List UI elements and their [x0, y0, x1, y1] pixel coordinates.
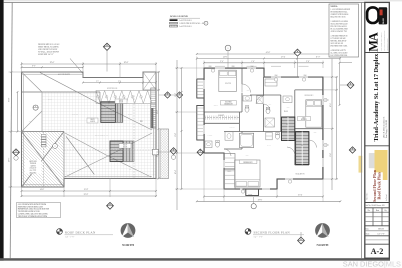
svg-text:AND CRICKET AT ROOF: AND CRICKET AT ROOF: [38, 48, 57, 51]
svg-text:NORTH: NORTH: [122, 243, 134, 247]
svg-text:2668: 2668: [287, 107, 290, 109]
svg-text:MAD: MAD: [382, 18, 385, 24]
bedroom 3 bed: [306, 100, 322, 127]
svg-text:THE PUBLIC STORM DRAIN SYSTEM: THE PUBLIC STORM DRAIN SYSTEM: [18, 215, 48, 218]
svg-text:4:12: 4:12: [96, 80, 99, 82]
svg-text:O.C. TYP: O.C. TYP: [30, 170, 37, 172]
svg-text:UP: UP: [286, 124, 288, 126]
svg-text:Date: Date: [376, 210, 379, 212]
svg-text:Sheet Title:: Sheet Title:: [366, 192, 368, 200]
svg-text:10"-6": 10"-6": [330, 103, 332, 108]
right planter strip: [160, 129, 169, 179]
ridge upper-left: [41, 92, 43, 132]
stair treads upper right: [115, 102, 122, 123]
svg-text:ROOF: ROOF: [123, 144, 127, 146]
trellis X diagonal 1: [22, 132, 65, 188]
title block outer box: [365, 2, 390, 258]
deck diagonal SE 3: [65, 156, 108, 177]
revision table: [372, 208, 374, 226]
section marker right: [170, 148, 177, 155]
deck right parapet: [153, 128, 155, 179]
below-sheet white strip: [0, 261, 402, 268]
svg-text:OPEN TRELLIS: OPEN TRELLIS: [107, 88, 117, 90]
truss zigzag band: [96, 90, 156, 92]
svg-text:Scale:: Scale:: [366, 233, 371, 235]
section marker left: [13, 149, 20, 156]
sheet bottom border (thick): [0, 258, 390, 261]
svg-text:SLOPE: SLOPE: [90, 121, 95, 123]
second floor dimension chains: [197, 58, 340, 60]
deck bottom parapet: [64, 175, 152, 177]
divider under logo: [365, 52, 390, 54]
north arrow right: [315, 223, 330, 238]
hip diagonal upper-left b: [22, 111, 43, 132]
roof deck title underline: [65, 234, 114, 236]
svg-text:W.I.C.: W.I.C.: [228, 171, 233, 173]
right outer dim: [339, 63, 341, 105]
divider under scale row: [365, 235, 390, 237]
svg-text:08/05/20: 08/05/20: [378, 228, 384, 230]
svg-text:1/4"=1"-0": 1/4"=1"-0": [377, 233, 385, 235]
bottom bump-out: [246, 189, 259, 196]
svg-text:2x6 @ 16": 2x6 @ 16": [30, 168, 37, 170]
svg-text:1: 1: [206, 23, 207, 25]
left bump-out upper (shelves): [197, 79, 204, 98]
deck diagonal SE 1: [65, 133, 108, 156]
dashed line vertical deck: [133, 96, 135, 179]
svg-text:OPEN WD: OPEN WD: [29, 161, 37, 163]
left scan black bar: [0, 0, 4, 261]
svg-text:9"-8": 9"-8": [306, 61, 310, 63]
ladder strip right edge: [151, 88, 156, 128]
svg-text:12"-4": 12"-4": [281, 57, 286, 59]
svg-text:5"-6": 5"-6": [251, 61, 255, 63]
window openings: [215, 67, 225, 69]
svg-text:2668: 2668: [246, 155, 249, 157]
door swings: [242, 84, 251, 93]
svg-text:BEDROOM: BEDROOM: [224, 103, 233, 105]
band dim line: [83, 82, 156, 84]
roof plan dimension chains: [22, 63, 157, 65]
sheet top border: [4, 1, 390, 3]
notes block: [329, 4, 359, 57]
stair center stringer: [287, 117, 289, 141]
roof access door box: [153, 149, 159, 155]
svg-text:4:12: 4:12: [129, 169, 132, 171]
svg-text:Triad-Academy St. Lot 17 Duple: Triad-Academy St. Lot 17 Duplex: [374, 53, 380, 142]
svg-text:5040 SL: 5040 SL: [214, 105, 219, 107]
svg-text:41"-0": 41"-0": [266, 52, 271, 54]
wall poché: [204, 68, 242, 69]
svg-text:3. WHERE WINDOW IS: 3. WHERE WINDOW IS: [331, 36, 348, 38]
roof deck plan title circle: [57, 229, 63, 235]
sheet right border: [388, 2, 390, 259]
bedroom 2 bed: [235, 160, 260, 187]
dark wall band right: [151, 108, 153, 128]
roof edge parapet double bottom: [24, 184, 64, 186]
trellis X diagonal 2: [22, 132, 65, 188]
svg-text:ROOF: ROOF: [119, 100, 123, 102]
stair shaft upper: [101, 102, 116, 123]
second floor title underline: [253, 234, 304, 236]
divider under project title: [365, 145, 390, 147]
marker circle top: [225, 45, 231, 51]
svg-text:REQ. PER CRC R310.: REQ. PER CRC R310.: [331, 16, 347, 18]
sheet title cell: [369, 153, 375, 168]
deck diagonal lower: [66, 136, 94, 174]
sheet left border: [10, 2, 12, 258]
tag circle roof: [33, 105, 38, 110]
svg-text:DECK 2%: DECK 2%: [72, 114, 79, 116]
north arrow left: [121, 223, 136, 238]
svg-text:COMPLY WITH EGRESS: COMPLY WITH EGRESS: [331, 14, 349, 16]
divider under revision table: [365, 225, 390, 227]
marker left wall: [197, 149, 203, 155]
section marker bottom: [107, 202, 114, 209]
svg-text:14"-0": 14"-0": [40, 189, 45, 191]
closets: [204, 117, 239, 119]
svg-text:WALL LEGEND: WALL LEGEND: [170, 15, 188, 18]
svg-text:SLOPE: SLOPE: [128, 114, 132, 116]
roof note leader: [70, 59, 83, 74]
svg-text:13"-0": 13"-0": [330, 153, 332, 158]
valley diagonal long 2: [100, 104, 152, 130]
divider under job row: [365, 207, 390, 209]
second floor outer wall: [204, 68, 323, 189]
marker right lower: [349, 147, 355, 153]
stacked tag labels: [41, 135, 46, 137]
svg-text:Roof Deck Plan: Roof Deck Plan: [377, 171, 382, 199]
svg-text:BEDROOM 3: BEDROOM 3: [305, 95, 314, 97]
dashed line vertical trellis: [43, 132, 45, 188]
valley diagonal long: [40, 73, 100, 105]
section marker D1: [103, 43, 110, 50]
svg-text:2640: 2640: [304, 75, 307, 77]
roof deck inner edge line: [22, 91, 101, 93]
master bed: [219, 70, 237, 91]
svg-text:4:12: 4:12: [29, 121, 32, 123]
svg-text:2x4 STUD WALL: 2x4 STUD WALL: [179, 25, 191, 28]
dashed line horizontal deck: [64, 149, 152, 151]
svg-text:4040: 4040: [314, 132, 317, 134]
marker pair roofplan a: [164, 92, 170, 98]
divider under sheet title: [365, 202, 390, 204]
svg-text:18"-5": 18"-5": [9, 157, 11, 162]
svg-text:San Diego, CA 92105: San Diego, CA 92105: [385, 120, 388, 138]
svg-text:1/4" = 1"-0": 1/4" = 1"-0": [65, 237, 74, 239]
second floor interior walls: [241, 68, 243, 84]
master bedroom label: [220, 101, 236, 105]
svg-text:BEDROOM 2: BEDROOM 2: [243, 162, 252, 164]
blank row line: [365, 239, 390, 241]
svg-text:2x6 STUD WALL: 2x6 STUD WALL: [179, 19, 191, 22]
stair shaft lower: [110, 141, 123, 162]
svg-text:6: 6: [35, 106, 36, 108]
svg-text:TRELLIS: TRELLIS: [30, 163, 36, 165]
svg-text:SECOND FLOOR PLAN: SECOND FLOOR PLAN: [254, 230, 291, 234]
svg-text:NOTES:: NOTES:: [331, 6, 338, 8]
svg-text:SHEET METAL FLASHING: SHEET METAL FLASHING: [38, 45, 59, 48]
divider above sheet number: [365, 243, 390, 245]
svg-text:15"-4": 15"-4": [298, 195, 303, 197]
second floor plan title circle: [245, 229, 251, 235]
svg-text:As Noted: As Noted: [385, 194, 388, 201]
svg-text:2: 2: [55, 146, 56, 148]
svg-text:Job No: 18-042 Drawn: MA: Job No: 18-042 Drawn: MA: [366, 204, 386, 207]
svg-text:MA: MA: [366, 32, 380, 51]
svg-text:A-2: A-2: [371, 247, 384, 256]
svg-text:2868: 2868: [209, 66, 212, 68]
svg-text:11"-2": 11"-2": [316, 57, 321, 59]
svg-text:4021 & 4023 Academy St: 4021 & 4023 Academy St: [382, 116, 385, 138]
svg-text:SAN DIEGO|MLS: SAN DIEGO|MLS: [343, 259, 401, 268]
roof edge parapet double line left: [23, 74, 25, 187]
svg-text:By: By: [385, 210, 387, 212]
svg-text:CLOSET: CLOSET: [218, 115, 224, 117]
svg-text:PROVIDED PER CODE.: PROVIDED PER CODE.: [331, 45, 349, 47]
svg-text:PER CRC R314 & R315: PER CRC R314 & R315: [331, 26, 347, 28]
roof deck trellis top edge: [22, 131, 65, 133]
svg-text:MIN SILL HEIGHT OF: MIN SILL HEIGHT OF: [331, 40, 347, 42]
marker right upper: [347, 82, 354, 89]
svg-text:PROVIDE MIN 26 GA GALV: PROVIDE MIN 26 GA GALV: [38, 43, 60, 46]
svg-text:2640: 2640: [275, 75, 278, 77]
svg-text:10"-4": 10"-4": [175, 170, 177, 175]
marker top: [294, 49, 301, 56]
svg-text:14"-6": 14"-6": [223, 57, 228, 59]
left bump-out shelves lines: [197, 81, 204, 83]
left bump lower shelf lines: [197, 107, 204, 109]
trellis circle tag: [53, 144, 58, 149]
svg-text:13"-2": 13"-2": [175, 93, 177, 98]
svg-text:1: 1: [228, 48, 229, 50]
date row: [365, 230, 390, 232]
marker bottom diamond: [298, 237, 305, 244]
deck diagonal SE 2: [108, 133, 152, 156]
storm water note box: [17, 203, 61, 218]
bath fixtures: [239, 133, 253, 147]
svg-text:15"-9": 15"-9": [84, 189, 89, 191]
svg-text:TO WALL, AREAS SHOWN: TO WALL, AREAS SHOWN: [38, 51, 60, 54]
roof edge parapet double line top: [22, 73, 84, 75]
bedroom 3 label: [298, 117, 311, 121]
tag circle bottom: [251, 204, 256, 209]
svg-text:19"-8": 19"-8": [9, 97, 11, 102]
hip diagonal upper-left a: [22, 72, 43, 92]
svg-text:4:12: 4:12: [118, 80, 121, 82]
marker pair roofplan b: [176, 92, 182, 98]
svg-text:4:12 WD SLOPE: 4:12 WD SLOPE: [58, 74, 70, 76]
svg-text:13"-2": 13"-2": [157, 110, 159, 115]
svg-text:29"-9": 29"-9": [84, 194, 89, 196]
svg-text:2868: 2868: [232, 66, 235, 68]
roof deck plan outline: [22, 72, 157, 187]
svg-text:SLOPE MIN 1/4":12": SLOPE MIN 1/4":12": [38, 54, 54, 56]
stair flight B: [296, 132, 309, 165]
svg-text:NORTH: NORTH: [317, 243, 329, 247]
svg-text:ROOM 3: ROOM 3: [301, 119, 307, 121]
svg-text:ROOF DECK PLAN: ROOF DECK PLAN: [65, 230, 96, 234]
roof deck inner edge right: [63, 132, 65, 179]
roof deck hatched areas: [42, 92, 100, 132]
stair treads lower right: [123, 141, 134, 162]
svg-text:arc: arc: [381, 26, 383, 28]
svg-text:11"-8": 11"-8": [175, 133, 177, 138]
svg-text:LNDRY: LNDRY: [208, 135, 213, 137]
title block separator line: [361, 2, 363, 258]
svg-text:39"-6": 39"-6": [258, 200, 263, 202]
corner box with X: [143, 72, 156, 90]
top page edge shading: [0, 0, 402, 1]
svg-text:18"-8": 18"-8": [124, 62, 129, 64]
svg-text:19"-6": 19"-6": [50, 62, 55, 64]
svg-text:9"-0": 9"-0": [220, 61, 224, 63]
svg-text:1-HOUR FIRE RATED WALL - SEE: 1-HOUR FIRE RATED WALL - SEE: [179, 22, 205, 25]
svg-text:5068: 5068: [247, 90, 250, 92]
svg-text:17"-8": 17"-8": [248, 195, 253, 197]
left bump-out lower: [197, 106, 204, 141]
deck diagonal SE 4: [108, 156, 151, 177]
yellow highlight bleed: [359, 156, 363, 173]
svg-text:RIDGE: RIDGE: [48, 99, 52, 101]
svg-text:1/4" = 1"-0": 1/4" = 1"-0": [254, 237, 263, 239]
trellis label text: [25, 160, 42, 174]
svg-text:8"-2": 8"-2": [32, 66, 36, 68]
svg-text:9"-6": 9"-6": [157, 153, 159, 157]
svg-text:Date:: Date:: [366, 228, 370, 230]
stair flight A: [282, 117, 295, 141]
